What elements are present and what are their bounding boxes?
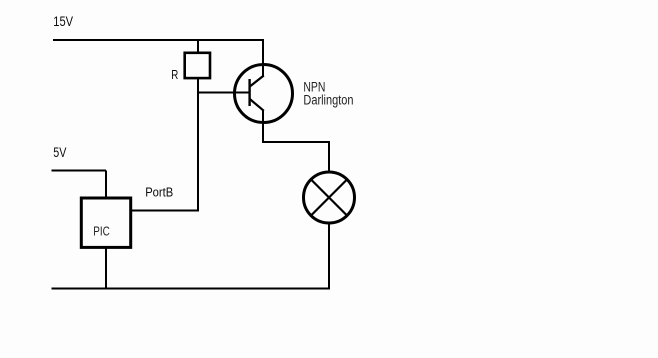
label 15V bbox=[53, 14, 73, 29]
wire: resistor bottom down to PortB junction bbox=[197, 79, 199, 211]
svg-text:15V: 15V bbox=[53, 14, 73, 29]
wire: lamp bottom down to rail bbox=[328, 222, 330, 289]
wire: emitter horizontal to lamp column bbox=[262, 141, 329, 143]
wire: PortB from PIC to resistor column bbox=[132, 210, 199, 212]
label PIC bbox=[93, 225, 109, 238]
wire: base wire to transistor bbox=[197, 92, 250, 94]
label NPN bbox=[303, 79, 325, 95]
wire: PIC bottom to ground rail bbox=[105, 248, 107, 289]
label Darlington bbox=[303, 92, 353, 108]
wire: down to lamp bbox=[328, 141, 330, 173]
label PortB bbox=[145, 185, 173, 200]
svg-text:R: R bbox=[171, 69, 178, 83]
wire: emitter down bbox=[262, 110, 264, 143]
transistor Q1 circle bbox=[235, 65, 293, 123]
svg-text:Darlington: Darlington bbox=[303, 92, 353, 108]
wire: collector from rail down bbox=[262, 39, 264, 77]
svg-text:PortB: PortB bbox=[145, 185, 173, 200]
transistor Q1 base bar bbox=[248, 79, 250, 106]
lamp L1 circle bbox=[304, 172, 355, 223]
label R bbox=[171, 69, 178, 83]
wire: rail to resistor top bbox=[197, 40, 199, 53]
wire: 5V stub bbox=[52, 170, 107, 172]
label 5V bbox=[53, 145, 67, 161]
transistor Q1 collector diagonal bbox=[250, 76, 264, 87]
transistor Q1 emitter diagonal bbox=[250, 99, 264, 111]
wire: 5V down to PIC top bbox=[105, 171, 107, 198]
lamp L1 cross diagonal 2 bbox=[311, 180, 347, 216]
lamp L1 cross diagonal 1 bbox=[311, 180, 347, 216]
PIC box U1 bbox=[81, 198, 130, 247]
svg-text:5V: 5V bbox=[53, 145, 67, 161]
wire: 15V top rail bbox=[53, 39, 264, 41]
svg-text:PIC: PIC bbox=[93, 225, 109, 238]
resistor R bbox=[185, 53, 210, 78]
wire: bottom rail bbox=[52, 288, 331, 290]
